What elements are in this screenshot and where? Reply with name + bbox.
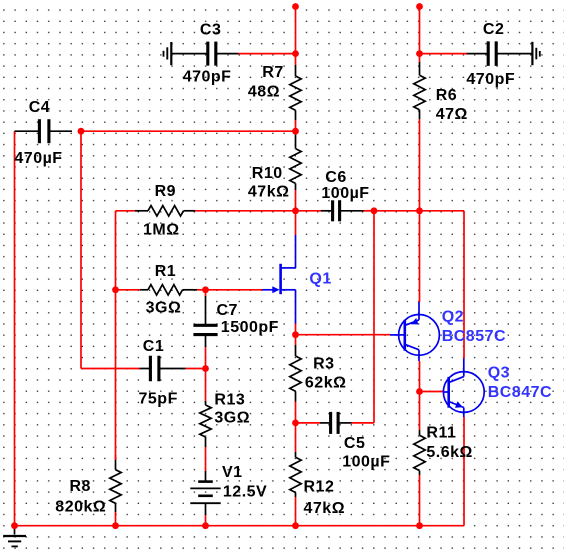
svg-text:62kΩ: 62kΩ <box>305 375 347 392</box>
capacitor C2 <box>467 41 533 66</box>
junction rail R11 <box>416 522 423 529</box>
svg-text:C7: C7 <box>217 302 238 319</box>
wire Q2 collector top red <box>419 211 421 302</box>
value 3Gohm of R1 <box>146 299 182 316</box>
wire R6 bottom red <box>419 119 421 211</box>
label R13 <box>214 392 245 409</box>
wire R3 bottom red <box>295 402 297 423</box>
svg-text:C3: C3 <box>200 21 221 38</box>
wire R9 left corner down <box>116 211 136 290</box>
value 470pF of C2 <box>466 71 515 88</box>
junction (295,211) <box>292 207 299 214</box>
junction C4 (81,131) <box>78 128 85 135</box>
wire C7 top lead red <box>205 290 207 296</box>
wire node374 to node419 <box>374 210 420 212</box>
wire R12 bottom red <box>295 497 297 526</box>
svg-text:1500pF: 1500pF <box>221 319 279 336</box>
wire C6 left lead red <box>296 210 322 212</box>
svg-text:820kΩ: 820kΩ <box>55 499 106 516</box>
wire C5 left lead red <box>296 422 321 424</box>
wire node419 to corner 464 <box>420 210 465 212</box>
junction C5 left (295,423) <box>292 420 299 427</box>
junction R1 left (115,290) <box>112 286 119 293</box>
junction Q2 base (295,335) <box>292 331 299 338</box>
wire C3 to node (295,54) <box>239 53 296 55</box>
wire node (419,54) to C2 <box>420 53 467 55</box>
svg-text:3GΩ: 3GΩ <box>146 299 182 316</box>
svg-text:12.5V: 12.5V <box>223 484 267 501</box>
svg-text:R10: R10 <box>252 165 283 182</box>
wire R8 bottom red <box>115 512 117 526</box>
svg-text:R6: R6 <box>436 87 457 104</box>
svg-text:47kΩ: 47kΩ <box>248 183 290 200</box>
capacitor C1 <box>140 356 186 382</box>
svg-text:C1: C1 <box>143 338 164 355</box>
wire R8 top red <box>115 455 117 460</box>
svg-text:R7: R7 <box>262 64 283 81</box>
value BC857C of Q2 <box>442 328 506 345</box>
svg-text:100µF: 100µF <box>321 185 369 202</box>
junction (295,131) <box>292 128 299 135</box>
capacitor C6 <box>321 200 364 221</box>
svg-text:R1: R1 <box>155 263 176 280</box>
ground GND-C3 <box>164 42 208 65</box>
wire R6 top red <box>419 54 421 62</box>
label C1 <box>143 338 164 355</box>
wire C7 bottom red to junction <box>205 347 207 369</box>
svg-text:R11: R11 <box>426 424 456 441</box>
svg-text:Q2: Q2 <box>442 309 464 326</box>
wire R1 right to gate <box>197 289 263 291</box>
junction (419,211) <box>416 207 423 214</box>
wire Q3 collector column <box>463 211 465 359</box>
value 820kohm of R8 <box>55 499 106 516</box>
resistor R7 <box>290 65 301 120</box>
value BC847C of Q3 <box>488 384 552 401</box>
svg-text:BC857C: BC857C <box>442 328 506 345</box>
resistor R11 <box>414 430 425 475</box>
svg-text:1MΩ: 1MΩ <box>143 221 180 238</box>
ground GND-main <box>3 526 26 547</box>
label V1 <box>222 464 243 481</box>
label C2 <box>483 21 504 38</box>
wire C4 left lead down left column <box>14 131 16 526</box>
value 75pF of C1 <box>139 391 178 408</box>
value 100uF of C6 <box>321 185 369 202</box>
svg-text:100µF: 100µF <box>342 453 390 470</box>
value 47kohm of R12 <box>304 500 346 517</box>
wire C6 right to junction 374 <box>364 210 375 212</box>
label R1 <box>155 263 176 280</box>
label R7 <box>262 64 283 81</box>
ground GND-C2 <box>532 42 539 65</box>
svg-text:48Ω: 48Ω <box>248 84 280 101</box>
svg-text:R3: R3 <box>313 355 334 372</box>
svg-text:C5: C5 <box>344 435 365 452</box>
junction C1 right (205,368) <box>202 365 209 372</box>
resistor R6 <box>414 62 425 119</box>
label R8 <box>70 478 91 495</box>
transistor Q2 (PNP BC857C) <box>390 302 439 361</box>
svg-text:Q3: Q3 <box>488 365 510 382</box>
transistor Q3 (NPN BC847C) <box>443 359 484 418</box>
label C5 <box>344 435 365 452</box>
wire R3 top red <box>295 335 297 345</box>
label C7 <box>217 302 238 319</box>
battery V1 <box>190 471 220 515</box>
resistor R3 <box>290 345 301 402</box>
label Q1 <box>309 270 331 287</box>
svg-text:470pF: 470pF <box>466 71 515 88</box>
value 1500pF of C7 <box>221 319 279 336</box>
label Q2 <box>442 309 464 326</box>
capacitor C4 <box>15 119 73 143</box>
svg-text:47kΩ: 47kΩ <box>304 500 346 517</box>
svg-text:BC847C: BC847C <box>488 384 552 401</box>
label C4 <box>29 99 50 116</box>
junction (374,211) <box>371 207 378 214</box>
wire R9 right to node <box>195 210 296 212</box>
label R10 <box>252 165 283 182</box>
wire top stub left <box>295 7 297 54</box>
wire Q2 to Q3 base row <box>420 391 444 393</box>
label R11 <box>426 424 456 441</box>
svg-text:75pF: 75pF <box>139 391 178 408</box>
svg-text:3GΩ: 3GΩ <box>214 410 250 427</box>
label R3 <box>313 355 334 372</box>
svg-text:Q1: Q1 <box>309 270 331 287</box>
value 470uF of C4 <box>14 150 62 167</box>
wire C6-C5 column x374 <box>373 211 375 423</box>
resistor R9 <box>135 206 195 216</box>
value 3Gohm of R13 <box>214 410 250 427</box>
svg-text:470µF: 470µF <box>14 150 62 167</box>
svg-text:47Ω: 47Ω <box>436 106 468 123</box>
svg-text:5.6kΩ: 5.6kΩ <box>426 444 472 461</box>
junction Q3 base (419,391) <box>416 388 423 395</box>
capacitor C3 <box>208 42 239 66</box>
node top-right connector dot <box>416 3 423 10</box>
wire Q1 source red <box>295 323 297 335</box>
wire R11 bottom red <box>419 475 421 526</box>
wire R13 to battery <box>205 447 207 471</box>
svg-text:470pF: 470pF <box>183 69 232 86</box>
wire column xC R1 to R8 <box>115 290 117 460</box>
value 47kohm of R10 <box>248 183 290 200</box>
resistor R13 <box>200 401 211 447</box>
value 100uF of C5 <box>342 453 390 470</box>
svg-text:R9: R9 <box>155 183 176 200</box>
capacitor C7 <box>193 296 217 347</box>
label Q3 <box>488 365 510 382</box>
junction rail R12 <box>292 522 299 529</box>
value 1Mohm of R9 <box>143 221 180 238</box>
wire R13 top red <box>205 369 207 402</box>
value 5.6kohm of R11 <box>426 444 472 461</box>
svg-text:C6: C6 <box>325 169 346 186</box>
wire V1 bottom red <box>205 515 207 526</box>
label C3 <box>200 21 221 38</box>
junction (419,54) <box>416 50 423 57</box>
capacitor C5 <box>320 412 352 434</box>
wire R1 row left <box>116 289 141 291</box>
value 470pF of C3 <box>183 69 232 86</box>
resistor R1 <box>140 285 197 295</box>
value 47ohm of R6 <box>436 106 468 123</box>
transistor Q1 (JFET) <box>263 235 296 324</box>
resistor R8 <box>110 460 121 512</box>
svg-text:C4: C4 <box>29 99 50 116</box>
svg-text:R12: R12 <box>304 478 335 495</box>
label R6 <box>436 87 457 104</box>
wire Q1 drain red <box>295 211 297 235</box>
node top-left connector dot <box>292 3 299 10</box>
wire Q2 emitter bottom red <box>419 361 421 392</box>
wire R12 top red <box>295 423 297 452</box>
junction rail V1 <box>202 522 209 529</box>
junction rail R8 <box>112 522 119 529</box>
svg-text:R13: R13 <box>214 392 245 409</box>
value 62kohm of R3 <box>305 375 347 392</box>
junction (295,54) <box>292 50 299 57</box>
wire C1 right lead red <box>186 368 206 370</box>
svg-text:R8: R8 <box>70 478 91 495</box>
junction R1 right (205,290) <box>202 286 209 293</box>
wire R10 bottom red <box>295 190 297 211</box>
wire R11 top red <box>419 392 421 431</box>
resistor R10 <box>290 131 301 190</box>
wire Q2 base row <box>296 334 391 336</box>
wire Q3 emitter to rail <box>463 417 465 526</box>
svg-text:C2: C2 <box>483 21 504 38</box>
wire top stub right <box>419 7 421 54</box>
label R9 <box>155 183 176 200</box>
wire C4 junction to main column <box>81 130 296 132</box>
resistor R12 <box>290 452 301 497</box>
wire C5 right lead red <box>352 422 375 424</box>
label R12 <box>304 478 335 495</box>
label C6 <box>325 169 346 186</box>
junction rail ground <box>11 522 18 529</box>
value 12.5V of V1 <box>223 484 267 501</box>
wire bottom rail <box>15 525 465 527</box>
svg-text:V1: V1 <box>222 464 243 481</box>
wire C4 right junction down to C1 <box>81 131 140 368</box>
wire R7 leads red <box>295 54 297 132</box>
value 48ohm of R7 <box>248 84 280 101</box>
